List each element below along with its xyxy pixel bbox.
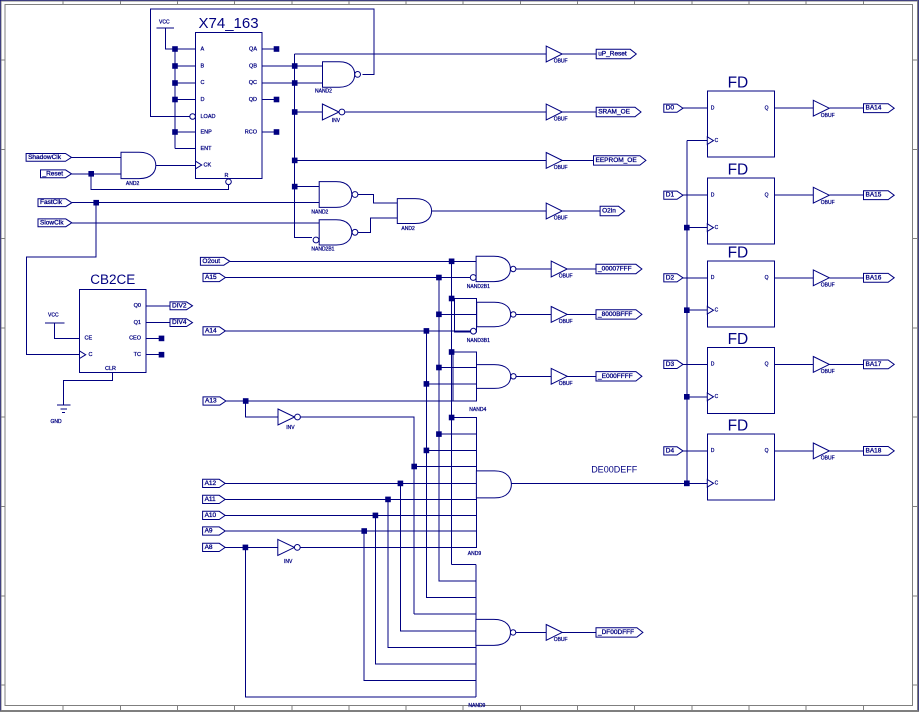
- svg-text:AND9: AND9: [468, 551, 482, 557]
- output tag BA14: [864, 104, 895, 113]
- junction clock FD4: [685, 395, 690, 400]
- junction A: [173, 47, 178, 52]
- flip-flop FD1 symbol box: [707, 75, 774, 158]
- FD1 clock triangle: [707, 137, 713, 145]
- svg-text:CK: CK: [204, 162, 212, 168]
- wire D1 to FD2: [683, 194, 707, 196]
- input tag ShadowClk: [26, 154, 71, 162]
- svg-text:OBUF: OBUF: [821, 282, 835, 288]
- svg-text:BA15: BA15: [866, 192, 882, 199]
- input tag A13: [203, 397, 226, 405]
- inverter INV (A13): [278, 409, 300, 431]
- svg-text:GND: GND: [51, 419, 63, 425]
- and gate AND9 (DE00DEFF): [452, 418, 512, 558]
- svg-text:ENT: ENT: [201, 146, 213, 152]
- output tag EEPROM_OE: [594, 156, 646, 165]
- wire INV A13 out: [300, 417, 414, 614]
- wire FD1 Q out: [774, 107, 813, 109]
- open pin square QD: [274, 97, 279, 102]
- wire OBUF to SRAM_OE tag: [562, 111, 596, 113]
- input tag FastClk: [38, 199, 72, 207]
- wire A14 net: [225, 330, 470, 332]
- svg-text:AND2: AND2: [401, 226, 415, 232]
- wire FastClk to CB2CE clock: [26, 203, 96, 355]
- wire A10 to NAND9: [375, 515, 476, 664]
- svg-text:A9: A9: [205, 528, 213, 535]
- junction clock FD2: [685, 225, 690, 230]
- wire NAND3B1 top input: [452, 298, 477, 300]
- wire _00007FFF to OBUF: [516, 268, 551, 270]
- output tag BA18: [864, 447, 895, 456]
- wire notA13 NAND9 input: [414, 613, 476, 615]
- wire stub CEO: [146, 337, 162, 339]
- junction clock FD3: [685, 308, 690, 313]
- svg-text:NAND9: NAND9: [468, 703, 485, 709]
- wire EEPROM_OE net: [295, 159, 547, 161]
- wire OBUF to BA17 tag: [829, 363, 863, 365]
- svg-text:VCC: VCC: [48, 313, 59, 319]
- buffer OBUF (_00007FFF): [551, 261, 572, 280]
- wire A14 NAND4 input: [426, 383, 476, 385]
- input tag A14: [203, 327, 225, 335]
- wire QC to NAND2: [262, 82, 323, 84]
- svg-text:B: B: [201, 63, 205, 69]
- input tag A12: [203, 479, 226, 487]
- svg-text:Q: Q: [765, 275, 769, 281]
- svg-text:D0: D0: [666, 105, 675, 112]
- wire A15 NAND3B1 input: [439, 313, 477, 315]
- input tag O2out: [200, 257, 229, 265]
- svg-text:BA17: BA17: [866, 361, 882, 368]
- svg-text:A10: A10: [205, 512, 217, 519]
- output tag DIV4: [170, 319, 193, 327]
- svg-text:FD: FD: [728, 417, 749, 434]
- svg-text:INV: INV: [284, 559, 293, 565]
- output tag _00007FFF: [596, 264, 642, 273]
- svg-text:X74_163: X74_163: [199, 15, 259, 32]
- wire O2out to NAND9 top input: [452, 563, 476, 565]
- svg-text:NAND2B1: NAND2B1: [311, 247, 334, 253]
- svg-text:A15: A15: [205, 274, 217, 281]
- svg-text:A13: A13: [205, 398, 217, 405]
- svg-text:D: D: [201, 97, 205, 103]
- wire NAND2mid upper input: [295, 186, 320, 188]
- ground GND symbol: [51, 405, 71, 425]
- svg-text:CEO: CEO: [129, 336, 142, 342]
- svg-text:ENP: ENP: [201, 129, 213, 135]
- svg-text:D3: D3: [666, 361, 675, 368]
- wire D2 to FD3: [683, 277, 707, 279]
- X74_163 LOAD bubble: [190, 114, 196, 120]
- junction A11: [386, 497, 391, 502]
- svg-text:OBUF: OBUF: [821, 456, 835, 462]
- svg-text:OBUF: OBUF: [559, 319, 573, 325]
- svg-text:FD: FD: [728, 162, 749, 179]
- svg-text:D: D: [711, 275, 715, 281]
- wire stub QD: [262, 99, 277, 101]
- svg-text:A8: A8: [205, 544, 213, 551]
- wire NAND2mid out to AND2: [358, 195, 397, 204]
- nand gate NAND2B1 (_00007FFF): [467, 256, 516, 290]
- wire clock to FD3 C: [687, 309, 708, 311]
- wire clock vertical (DE00DEFF): [686, 141, 688, 484]
- svg-text:A12: A12: [205, 480, 217, 487]
- junction A10: [373, 513, 378, 518]
- svg-text:Q1: Q1: [134, 320, 141, 326]
- output tag uP_Reset: [596, 49, 636, 58]
- wire A11 net: [225, 498, 476, 500]
- open pin square RCO: [274, 130, 279, 135]
- and gate AND2 (O2in): [397, 199, 431, 232]
- wire A8 to NAND9: [245, 547, 476, 697]
- svg-text:D: D: [711, 193, 715, 199]
- svg-text:Q: Q: [765, 193, 769, 199]
- buffer OBUF (uP_Reset): [546, 46, 567, 65]
- svg-text:D2: D2: [666, 274, 675, 281]
- wire OBUF to BA16 tag: [829, 277, 863, 279]
- buffer OBUF (O2in): [546, 203, 567, 222]
- junction O2out NAND4: [449, 350, 454, 355]
- wire VCC to pin column: [165, 28, 195, 49]
- svg-text:OBUF: OBUF: [554, 637, 568, 643]
- wire O2out net: [230, 260, 476, 262]
- output tag BA17: [864, 360, 895, 369]
- wire D3 to FD4: [683, 363, 707, 365]
- wire DE00DEFF net: [511, 482, 707, 484]
- svg-text:D: D: [711, 106, 715, 112]
- wire INV A8 out to AND9: [300, 546, 476, 548]
- svg-text:D4: D4: [666, 447, 675, 454]
- wire pin-column vertical: [174, 49, 176, 149]
- svg-text:Q: Q: [765, 362, 769, 368]
- junction A14 bus: [424, 329, 429, 334]
- junction A15 NAND3B1: [437, 312, 442, 317]
- junction D: [173, 97, 178, 102]
- junction A14 AND9: [424, 448, 429, 453]
- wire OBUF to EEPROM_OE tag: [562, 159, 593, 161]
- svg-text:SlowClk: SlowClk: [40, 219, 64, 226]
- svg-text:D: D: [711, 448, 715, 454]
- svg-text:_Reset: _Reset: [42, 170, 64, 177]
- input tag D1: [664, 191, 683, 199]
- junction A9: [362, 529, 367, 534]
- wire _8000BFFF to OBUF: [516, 313, 551, 315]
- wire Q0 to DIV2: [146, 305, 170, 307]
- svg-text:Q: Q: [765, 106, 769, 112]
- wire OBUF to _00007FFF tag: [567, 268, 596, 270]
- svg-text:BA18: BA18: [866, 447, 882, 454]
- net label DE00DEFF: [591, 465, 638, 475]
- junction A15 AND9: [437, 432, 442, 437]
- svg-text:_E000FFFF: _E000FFFF: [597, 373, 633, 380]
- input tag A10: [203, 511, 226, 519]
- flip-flop FD5 symbol box: [707, 417, 774, 500]
- wire SlowClk: [72, 222, 319, 224]
- X74_163 pin labels: [201, 47, 258, 180]
- wire _E000FFFF to OBUF: [516, 375, 551, 377]
- nand gate NAND2 (QB,QC): [315, 62, 361, 95]
- wire FD4 Q out: [774, 363, 813, 365]
- inverter INV (SRAM_OE): [322, 104, 344, 124]
- junction bus-NAND2mid: [292, 184, 297, 189]
- wire OBUF to uP_Reset tag: [562, 53, 596, 55]
- svg-text:A: A: [201, 47, 205, 53]
- output tag SRAM_OE: [596, 107, 641, 116]
- svg-text:QD: QD: [249, 97, 257, 103]
- wire CLR to ground: [63, 373, 112, 406]
- junction O2out NAND3B1: [449, 296, 454, 301]
- buffer OBUF (_8000BFFF): [551, 307, 572, 326]
- power VCC (X74_163): [157, 20, 174, 29]
- svg-text:OBUF: OBUF: [554, 117, 568, 123]
- svg-text:uP_Reset: uP_Reset: [598, 51, 627, 58]
- wire A14 AND9 input: [426, 449, 476, 451]
- svg-text:QB: QB: [249, 63, 257, 69]
- wire stub TC: [146, 354, 162, 356]
- junction A12: [398, 481, 403, 486]
- wire stub QA: [262, 48, 277, 50]
- nand gate NAND2 (FastClk): [311, 182, 358, 216]
- wire OBUF to BA15 tag: [829, 194, 863, 196]
- wire INV input: [295, 111, 323, 113]
- wire D4 to FD5: [683, 450, 707, 452]
- svg-text:TC: TC: [134, 352, 141, 358]
- CB2CE clock triangle: [80, 351, 86, 359]
- junction B: [173, 64, 178, 69]
- wire ShadowClk: [72, 156, 122, 158]
- wire notA13 AND9 input: [414, 466, 476, 468]
- input tag A9: [203, 527, 226, 535]
- wire A12 to NAND9: [400, 483, 476, 630]
- svg-text:FD: FD: [728, 331, 749, 348]
- svg-text:OBUF: OBUF: [821, 200, 835, 206]
- wire OBUF to _E000FFFF tag: [567, 375, 596, 377]
- wire stub D: [175, 99, 196, 101]
- wire A15 net: [225, 277, 470, 279]
- wire stub ENT: [175, 148, 196, 150]
- open pin square TC: [159, 352, 164, 357]
- X74_163 R bubble: [226, 179, 232, 185]
- svg-text:FD: FD: [728, 75, 749, 92]
- nand gate NAND3B1 (_8000BFFF): [455, 299, 516, 345]
- FD3 clock triangle: [707, 306, 713, 314]
- wire VCC to CE: [55, 323, 80, 339]
- wire A9 to NAND9: [364, 531, 476, 681]
- wire clock to FD1 C: [687, 140, 708, 142]
- input tag D0: [664, 104, 683, 112]
- wire FD5 Q out: [774, 450, 813, 452]
- buffer OBUF (BA17): [813, 357, 834, 376]
- svg-text:CB2CE: CB2CE: [90, 272, 135, 287]
- svg-text:OBUF: OBUF: [821, 369, 835, 375]
- flip-flop FD3 symbol box: [707, 244, 774, 327]
- svg-text:D1: D1: [666, 192, 675, 199]
- svg-text:C: C: [715, 481, 719, 487]
- junction FastClk: [94, 200, 99, 205]
- wire FastClk: [72, 202, 319, 204]
- buffer OBUF (BA16): [813, 270, 834, 289]
- wire NAND4 top input: [452, 351, 477, 353]
- output tag BA16: [864, 273, 895, 282]
- output tag BA15: [864, 191, 895, 200]
- svg-text:QC: QC: [249, 80, 257, 86]
- junction C: [173, 81, 178, 86]
- wire clock to FD5 C: [687, 482, 708, 484]
- wire A9 net: [225, 530, 476, 532]
- svg-text:VCC: VCC: [159, 20, 170, 26]
- junction O2out AND9: [449, 415, 454, 420]
- open pin square CEO: [159, 336, 164, 341]
- flip-flop FD4 symbol box: [707, 331, 774, 414]
- svg-text:NAND3B1: NAND3B1: [467, 338, 490, 344]
- nand gate NAND2B1 (SlowClk): [311, 220, 358, 253]
- buffer OBUF (EEPROM_OE): [546, 153, 567, 172]
- wire _Reset: [72, 173, 122, 175]
- svg-text:OBUF: OBUF: [559, 274, 573, 280]
- svg-text:NAND4: NAND4: [469, 407, 486, 413]
- svg-text:C: C: [715, 394, 719, 400]
- svg-text:_8000BFFF: _8000BFFF: [597, 311, 632, 318]
- svg-text:_00007FFF: _00007FFF: [597, 266, 632, 273]
- wire Q1 to DIV4: [146, 322, 170, 324]
- svg-text:AND2: AND2: [126, 181, 140, 187]
- output tag O2in: [600, 206, 625, 215]
- counter U-X74_163 symbol box: [196, 15, 263, 179]
- open pin square QA: [274, 47, 279, 52]
- svg-text:OBUF: OBUF: [554, 59, 568, 65]
- wire AND2 out to CK: [156, 164, 196, 166]
- flip-flop FD2 symbol box: [707, 162, 774, 245]
- wire A11 to NAND9: [388, 499, 476, 647]
- svg-text:O2in: O2in: [602, 208, 616, 215]
- svg-text:ShadowClk: ShadowClk: [28, 154, 62, 161]
- nand gate NAND4 (_E000FFFF): [453, 352, 516, 413]
- wire A15 AND9 input: [439, 433, 477, 435]
- wire A12 net: [225, 482, 476, 484]
- inverter INV (A8): [278, 539, 300, 565]
- wire A13 to INV: [246, 401, 278, 417]
- input tag A11: [203, 495, 226, 503]
- input tag SlowClk: [38, 219, 72, 227]
- junction clock FD5: [685, 481, 690, 486]
- wire A13 net: [226, 400, 477, 402]
- output tag _E000FFFF: [596, 372, 642, 381]
- output tag _8000BFFF: [596, 310, 642, 319]
- wire clock to FD2 C: [687, 227, 708, 229]
- input tag D4: [664, 447, 683, 455]
- wire stub ENP: [175, 131, 196, 133]
- svg-text:INV: INV: [286, 425, 295, 431]
- junction notA13 to AND9: [412, 464, 417, 469]
- svg-text:C: C: [715, 225, 719, 231]
- input tag A15: [203, 273, 225, 281]
- wire stub B: [175, 65, 196, 67]
- buffer OBUF (_E000FFFF): [551, 368, 572, 387]
- svg-text:CLR: CLR: [105, 366, 116, 372]
- svg-text:C: C: [715, 138, 719, 144]
- output tag DIV2: [170, 302, 193, 310]
- FD5 clock triangle: [707, 480, 713, 488]
- wire FD3 Q out: [774, 277, 813, 279]
- wire R pin to _Reset net: [91, 174, 228, 190]
- and gate AND2 (clock enable): [121, 152, 156, 187]
- wire O2in net: [432, 210, 547, 212]
- svg-text:SRAM_OE: SRAM_OE: [598, 109, 630, 116]
- svg-text:A11: A11: [205, 496, 216, 503]
- wire A15 NAND4 input: [439, 367, 477, 369]
- wire OBUF to BA14 tag: [829, 107, 863, 109]
- svg-text:QA: QA: [249, 47, 257, 53]
- svg-text:RCO: RCO: [245, 129, 258, 135]
- wire A10 net: [225, 514, 476, 516]
- svg-text:INV: INV: [332, 118, 341, 124]
- svg-text:BA14: BA14: [866, 105, 882, 112]
- svg-text:FastClk: FastClk: [40, 199, 63, 206]
- svg-text:NAND2B1: NAND2B1: [467, 284, 490, 290]
- wire clock to FD4 C: [687, 396, 708, 398]
- junction DE00DEFF clock: [685, 481, 690, 486]
- buffer OBUF (BA14): [813, 100, 834, 119]
- svg-text:R: R: [225, 173, 229, 179]
- wire OBUF to O2in tag: [562, 210, 600, 212]
- svg-text:C: C: [715, 308, 719, 314]
- input tag A8: [203, 543, 226, 551]
- input tag D3: [664, 360, 683, 368]
- svg-text:C: C: [201, 80, 205, 86]
- svg-text:FD: FD: [728, 244, 749, 261]
- svg-text:OBUF: OBUF: [554, 165, 568, 171]
- wire QB to NAND2: [262, 65, 323, 67]
- svg-text:DIV2: DIV2: [172, 302, 187, 309]
- junction A15 NAND4: [437, 365, 442, 370]
- wire OBUF to BA18 tag: [829, 450, 863, 452]
- nand gate NAND9 (_DF00DFFF): [468, 564, 515, 709]
- junction bus-INV: [292, 110, 297, 115]
- wire O2out vertical bus: [451, 261, 453, 564]
- buffer OBUF (_DF00DFFF): [546, 625, 567, 644]
- wire OBUF to _DF00DFFF tag: [562, 631, 596, 633]
- power VCC (CB2CE): [45, 313, 65, 323]
- svg-text:OBUF: OBUF: [554, 216, 568, 222]
- svg-text:OBUF: OBUF: [821, 113, 835, 119]
- wire NAND2B1 out to AND2: [358, 218, 397, 232]
- wire uP_Reset net: [295, 53, 547, 55]
- CB2CE pin labels: [85, 303, 142, 372]
- input tag D2: [664, 274, 683, 282]
- buffer OBUF (SRAM_OE): [546, 104, 567, 123]
- counter U-CB2CE symbol box: [80, 272, 147, 373]
- input tag _Reset: [41, 170, 72, 178]
- svg-text:DE00DEFF: DE00DEFF: [591, 465, 638, 475]
- wire feedback NAND2 output to LOAD: [150, 9, 373, 116]
- wire bus QB/QC column: [295, 54, 312, 238]
- svg-text:D: D: [711, 362, 715, 368]
- junction A14 NAND4: [424, 382, 429, 387]
- svg-text:BA16: BA16: [866, 274, 882, 281]
- wire A15 vertical bus: [439, 278, 476, 582]
- junction _Reset: [89, 172, 94, 177]
- svg-text:OBUF: OBUF: [559, 381, 573, 387]
- FD4 clock triangle: [707, 393, 713, 401]
- X74_163 CK clock triangle: [196, 161, 202, 169]
- svg-text:O2out: O2out: [202, 258, 220, 265]
- FD2 clock triangle: [707, 224, 713, 232]
- buffer OBUF (BA15): [813, 187, 834, 206]
- wire _DF00DFFF to OBUF: [516, 631, 546, 633]
- wire FD2 Q out: [774, 194, 813, 196]
- junction O2out bus: [449, 259, 454, 264]
- junction bus-EEPROM: [292, 158, 297, 163]
